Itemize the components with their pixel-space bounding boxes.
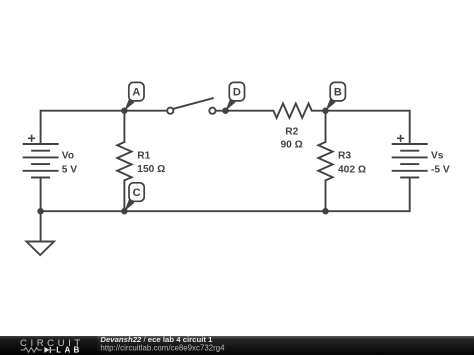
battery Vs (392, 144, 428, 178)
svg-text:R2: R2 (285, 126, 298, 137)
svg-text:B: B (334, 87, 342, 99)
svg-text:LAB: LAB (56, 345, 82, 354)
svg-text:5 V: 5 V (62, 164, 77, 175)
wire R3 bottom lead (325, 180, 327, 211)
node C (121, 183, 144, 215)
junction dot left bottom (37, 208, 43, 214)
svg-text:150 Ω: 150 Ω (137, 164, 165, 175)
wire top rail left (Vo+ to node A to switch) (41, 111, 168, 144)
svg-text:Vo: Vo (62, 151, 74, 162)
svg-text:Vs: Vs (431, 151, 444, 162)
node D (222, 82, 244, 114)
svg-text:402 Ω: 402 Ω (338, 164, 366, 175)
resistor R1 (117, 142, 131, 180)
wire R1 top lead (123, 111, 125, 142)
svg-text:R1: R1 (137, 151, 150, 162)
battery Vo plus sign (28, 135, 35, 142)
wire ground lead (40, 211, 42, 241)
resistor R2 (273, 104, 311, 118)
svg-text:R3: R3 (338, 151, 351, 162)
svg-text:http://circuitlab.com/ce8e9xc7: http://circuitlab.com/ce8e9xc732rg4 (100, 343, 225, 352)
switch SW1 (167, 98, 215, 114)
svg-text:-5 V: -5 V (431, 164, 450, 175)
svg-text:90 Ω: 90 Ω (281, 140, 303, 151)
node A (121, 82, 144, 114)
resistor R3 (318, 142, 332, 180)
battery Vo (23, 144, 59, 178)
svg-text:D: D (233, 87, 241, 99)
wire node D segment (switch to R2) (216, 110, 274, 112)
battery Vs plus sign (397, 135, 404, 142)
wire node B segment (R2 to Vs+) (312, 111, 410, 144)
svg-text:C: C (133, 187, 141, 199)
ground (26, 242, 54, 256)
wire R3 top lead (325, 111, 327, 142)
node B (322, 82, 345, 114)
CircuitLab logo resistor squiggle (21, 348, 42, 353)
CircuitLab logo diode (44, 347, 49, 353)
junction dot R3 bottom (322, 208, 328, 214)
wire R1 bottom lead (123, 180, 125, 211)
wire bottom rail (41, 178, 410, 212)
svg-text:A: A (132, 87, 140, 99)
